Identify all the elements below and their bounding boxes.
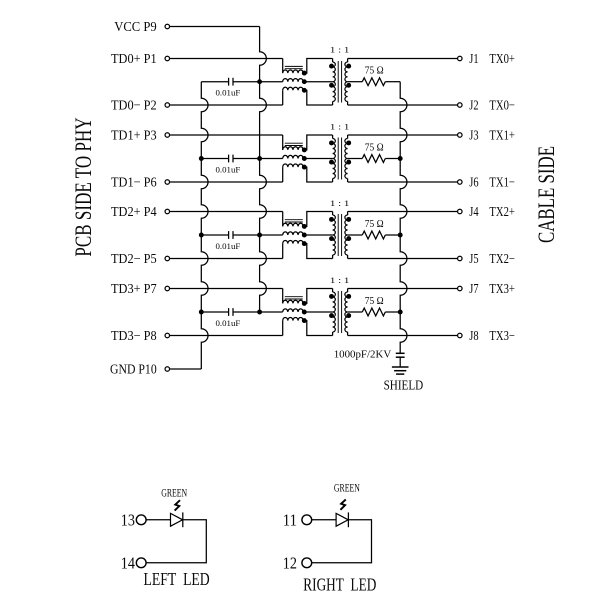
- svg-text:TX3+: TX3+: [489, 281, 515, 296]
- svg-text:CABLE SIDE: CABLE SIDE: [534, 146, 559, 243]
- svg-text:TX1+: TX1+: [489, 128, 515, 143]
- svg-text:75 Ω: 75 Ω: [365, 296, 384, 307]
- svg-text:TX1−: TX1−: [489, 175, 515, 190]
- svg-text:J6: J6: [469, 175, 478, 190]
- svg-text:TX0+: TX0+: [489, 51, 515, 66]
- svg-text:0.01uF: 0.01uF: [216, 319, 241, 328]
- svg-text:TD3− P8: TD3− P8: [111, 328, 157, 343]
- svg-text:TD0− P2: TD0− P2: [111, 98, 157, 113]
- svg-text:TD1+ P3: TD1+ P3: [111, 128, 157, 143]
- svg-text:1000pF/2KV: 1000pF/2KV: [334, 349, 392, 361]
- svg-text:J3: J3: [469, 128, 478, 143]
- svg-text:GREEN: GREEN: [161, 485, 187, 499]
- svg-text:11: 11: [283, 510, 297, 529]
- svg-text:J4: J4: [469, 204, 478, 219]
- svg-text:RIGHT LED: RIGHT LED: [303, 575, 376, 595]
- svg-text:J5: J5: [469, 251, 478, 266]
- svg-text:1 : 1: 1 : 1: [330, 45, 350, 55]
- svg-text:TD1− P6: TD1− P6: [111, 175, 157, 190]
- svg-text:TD0+ P1: TD0+ P1: [111, 51, 157, 66]
- svg-text:1 : 1: 1 : 1: [330, 122, 350, 132]
- svg-text:PCB SIDE TO PHY: PCB SIDE TO PHY: [71, 117, 96, 256]
- svg-text:1 : 1: 1 : 1: [330, 198, 350, 208]
- svg-text:0.01uF: 0.01uF: [216, 242, 241, 251]
- svg-text:TX2+: TX2+: [489, 204, 515, 219]
- svg-text:12: 12: [283, 553, 297, 572]
- svg-text:J8: J8: [469, 328, 478, 343]
- svg-text:14: 14: [121, 553, 136, 572]
- svg-text:0.01uF: 0.01uF: [216, 89, 241, 98]
- svg-text:TX3−: TX3−: [489, 328, 515, 343]
- svg-text:GREEN: GREEN: [334, 481, 360, 495]
- svg-text:TD2+ P4: TD2+ P4: [111, 204, 157, 219]
- svg-text:TD3+ P7: TD3+ P7: [111, 281, 157, 296]
- svg-text:J2: J2: [469, 98, 478, 113]
- svg-text:J1: J1: [469, 51, 478, 66]
- svg-text:TX0−: TX0−: [489, 98, 515, 113]
- svg-text:75 Ω: 75 Ω: [365, 219, 384, 230]
- svg-text:GND P10: GND P10: [110, 362, 157, 377]
- svg-text:13: 13: [121, 510, 135, 529]
- svg-text:75 Ω: 75 Ω: [365, 66, 384, 77]
- svg-text:SHIELD: SHIELD: [384, 377, 424, 392]
- svg-text:LEFT LED: LEFT LED: [144, 569, 210, 589]
- svg-text:1 : 1: 1 : 1: [330, 275, 350, 285]
- svg-text:75 Ω: 75 Ω: [365, 142, 384, 153]
- svg-text:VCC P9: VCC P9: [114, 19, 157, 34]
- svg-text:J7: J7: [469, 281, 478, 296]
- svg-text:TX2−: TX2−: [489, 251, 515, 266]
- svg-text:TD2− P5: TD2− P5: [111, 251, 157, 266]
- svg-text:0.01uF: 0.01uF: [216, 165, 241, 174]
